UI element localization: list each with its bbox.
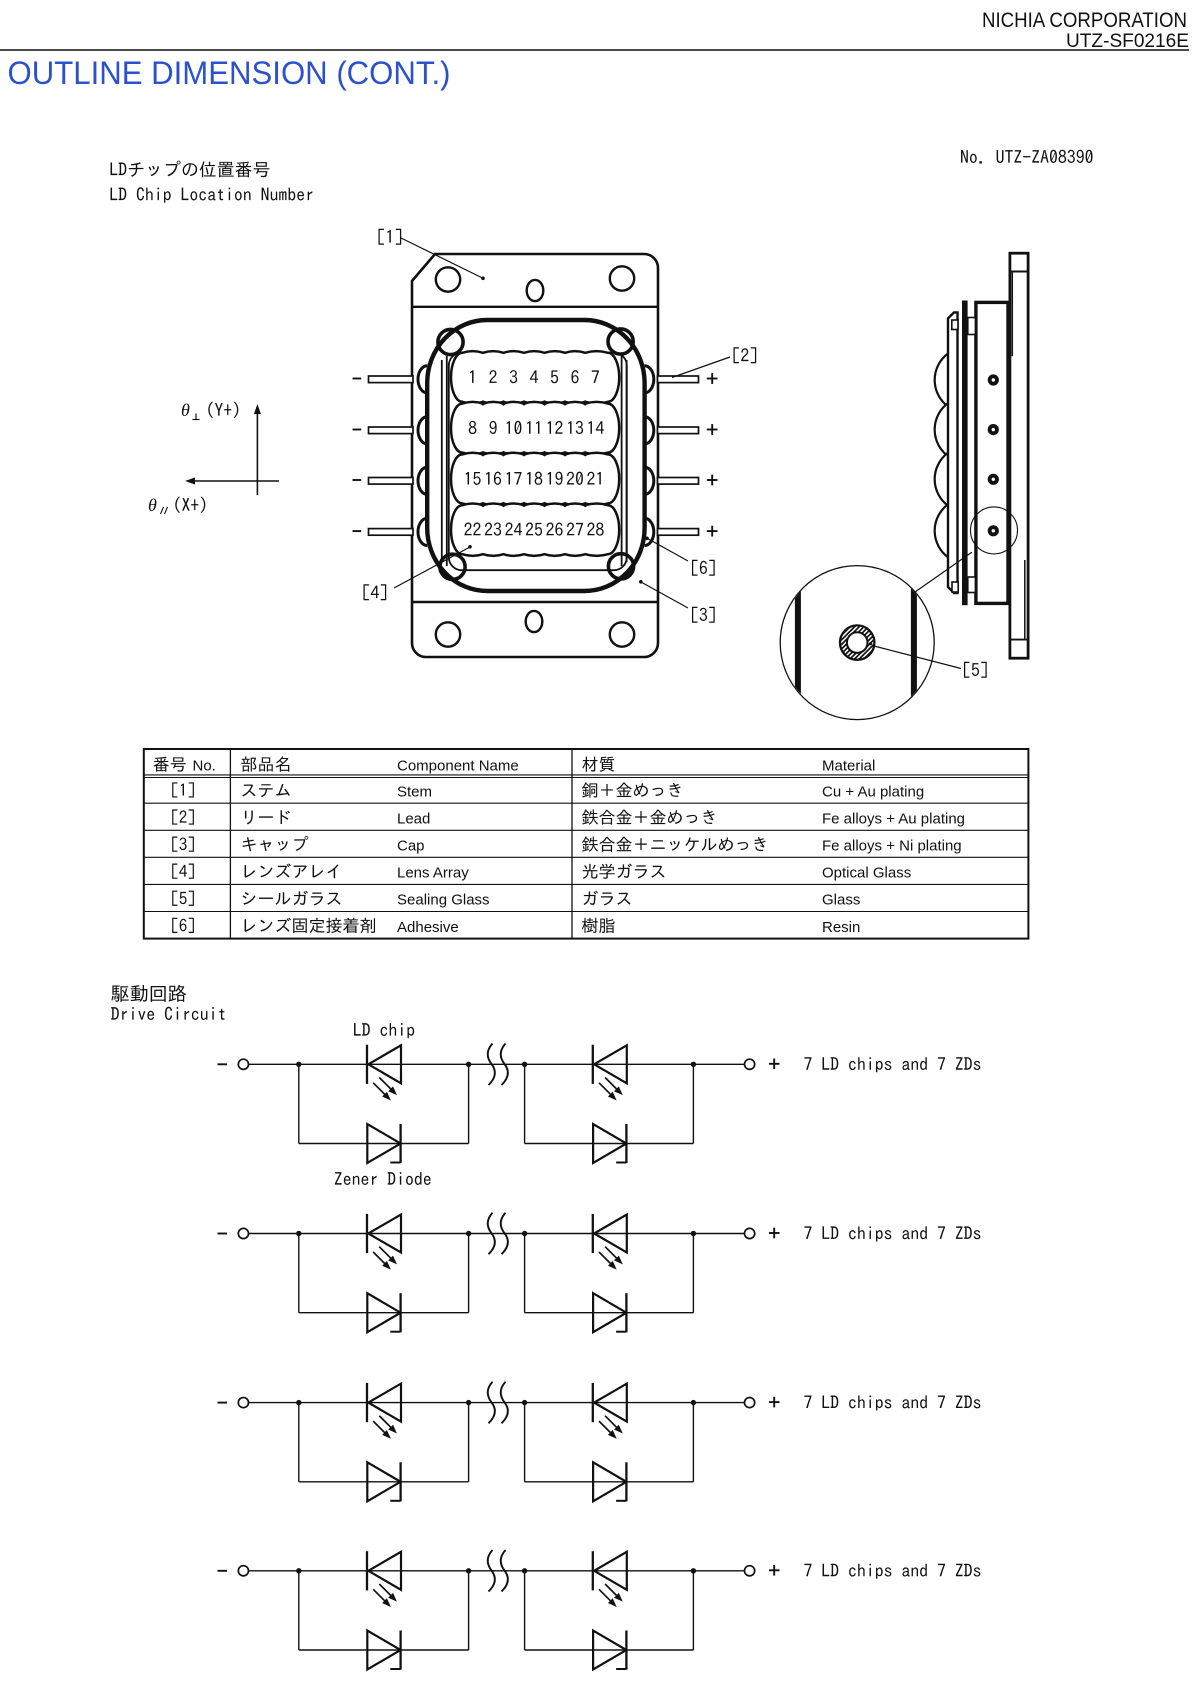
row 3 positive terminal: [745, 1398, 755, 1408]
row 4 zener branch rails right cell: [525, 1571, 694, 1650]
row 1 zener branch rails right cell: [525, 1064, 694, 1143]
row 2 negative terminal: [238, 1228, 248, 1238]
svg-text:Stem: Stem: [397, 783, 432, 800]
row 1 plus terminal mark: [769, 1059, 780, 1070]
axis label theta-perp (Y+): [181, 400, 238, 420]
lens row 3 (chips 15-21): [451, 453, 619, 505]
svg-text:UTZ-SF0216E: UTZ-SF0216E: [1066, 31, 1189, 52]
row 3 annotation 7 LD chips and 7 ZDs: [804, 1396, 980, 1411]
svg-text:Glass: Glass: [822, 892, 860, 909]
drive circuit heading (EN): [111, 1007, 224, 1020]
stem flange line top: [412, 306, 658, 308]
row 4 node C junction: [522, 1568, 527, 1573]
cap block (side view): [976, 302, 1008, 603]
row 2 node D junction: [691, 1231, 696, 1236]
stem outline (front view): [412, 254, 658, 657]
svg-text:Optical Glass: Optical Glass: [822, 865, 911, 882]
axis horizontal arrow (X+): [185, 478, 279, 485]
row 3 minus terminal mark: [218, 1402, 228, 1404]
svg-text:Sealing Glass: Sealing Glass: [397, 892, 490, 909]
row 1 wire break symbol: [488, 1044, 508, 1086]
lens array frame verticals left: [442, 356, 447, 566]
axis label theta-para (X+): [148, 495, 205, 515]
row 3 node C junction: [522, 1400, 527, 1405]
lens row 4 (chips 22-28): [451, 504, 619, 556]
svg-text:Adhesive: Adhesive: [397, 919, 459, 936]
row 4 LD chip D4a: [367, 1551, 401, 1607]
callout [1] label: [378, 229, 401, 245]
cap side bumps (8x): [418, 366, 654, 546]
row 3 plus terminal mark: [769, 1397, 780, 1408]
row 3 node D junction: [691, 1400, 696, 1405]
row 4 LD chip D4b: [593, 1551, 627, 1607]
row 2 node B junction: [466, 1231, 471, 1236]
row 3 negative terminal: [238, 1398, 248, 1408]
row 4 node B junction: [466, 1568, 471, 1573]
detail view clip: [0, 0, 1, 1]
caption LD chip location number (JP): [111, 161, 270, 178]
row 2 wire: [249, 1233, 745, 1235]
detail reference circle (side view): [971, 507, 1018, 554]
row 1 node B junction: [466, 1062, 471, 1067]
lens array frame verticals right: [622, 356, 627, 566]
chip location numbers row 1: [470, 370, 599, 383]
row 2 annotation 7 LD chips and 7 ZDs: [804, 1226, 980, 1241]
svg-text:Fe alloys + Ni plating: Fe alloys + Ni plating: [822, 838, 962, 855]
row 1 LD chip D1b: [593, 1045, 627, 1101]
row 4 plus terminal mark: [769, 1565, 780, 1576]
row 2 positive terminal: [745, 1228, 755, 1238]
row 4 zener branch rails left cell: [299, 1571, 469, 1650]
callout [4] leader: [394, 545, 472, 588]
minus polarity marks left: [353, 379, 362, 532]
row 3 zener branch rails left cell: [299, 1403, 469, 1482]
row 1 node D junction: [691, 1062, 696, 1067]
header document number text: [1066, 31, 1189, 52]
row 1 wire: [249, 1063, 745, 1065]
row 4 node D junction: [691, 1568, 696, 1573]
row 3 zener branch rails right cell: [525, 1403, 694, 1482]
svg-text:θ: θ: [148, 495, 157, 515]
row 2 zener diode Z2b: [593, 1293, 626, 1332]
table header cells: [154, 756, 876, 774]
callout [6] label: [692, 560, 715, 576]
row 2 LD chip D2a: [367, 1214, 401, 1270]
row 4 minus terminal mark: [218, 1570, 228, 1572]
cap corner lugs (4x): [438, 329, 634, 580]
detail view boundary circle: [780, 566, 934, 720]
row 2 zener branch rails right cell: [525, 1234, 694, 1313]
mounting hole bottom-right: [610, 622, 634, 646]
row 3 wire break symbol: [488, 1382, 508, 1424]
detail view reference leader: [913, 552, 972, 594]
row 1 annotation 7 LD chips and 7 ZDs: [804, 1057, 980, 1072]
callout [3] leader: [639, 580, 688, 608]
stem flange line bottom: [412, 601, 658, 603]
stem slot bottom-center: [526, 611, 543, 632]
row 1 node C junction: [522, 1062, 527, 1067]
table row [1]: [172, 782, 924, 800]
callout [5] leader: [869, 642, 961, 669]
callout [2] label: [733, 347, 756, 363]
page title: [8, 55, 451, 91]
lens row 1 (chips 1-7): [451, 351, 619, 403]
row 2 LD chip D2b: [593, 1214, 627, 1270]
row 4 wire: [249, 1570, 745, 1572]
svg-text:Material: Material: [822, 758, 875, 775]
row 3 wire: [249, 1402, 745, 1404]
row 1 zener branch rails left cell: [299, 1064, 469, 1143]
row 2 minus terminal mark: [218, 1233, 228, 1235]
row 2 zener branch rails left cell: [299, 1234, 469, 1313]
table row [4]: [172, 863, 911, 881]
table row [3]: [172, 836, 961, 855]
lens row 2 (chips 8-14): [451, 402, 619, 454]
chip location numbers row 2: [469, 421, 604, 434]
row 1 node A junction: [296, 1062, 301, 1067]
row 1 zener diode Z1a: [367, 1124, 400, 1163]
row 4 positive terminal: [745, 1566, 755, 1576]
lens junction diamonds: [479, 400, 589, 507]
row 3 node A junction: [296, 1400, 301, 1405]
chip location numbers row 4: [464, 522, 603, 535]
stem slot top-center: [527, 280, 544, 301]
row 3 zener diode Z3b: [593, 1462, 626, 1501]
stem plate (side view): [1010, 253, 1028, 658]
callout [2] leader: [672, 357, 730, 378]
callout [1] leader: [400, 238, 485, 281]
leads left (4x): [369, 376, 414, 535]
row 4 negative terminal: [238, 1566, 248, 1576]
lens array plate with lens bumps (side view): [935, 312, 958, 593]
cap opening rounded rect: [449, 353, 627, 571]
table row [2]: [172, 809, 965, 827]
callout [3] label: [692, 607, 715, 623]
header company name text: [982, 9, 1187, 32]
label LD chip: [354, 1023, 414, 1038]
mounting hole top-left: [436, 267, 460, 291]
adhesive tabs (side view): [952, 318, 976, 593]
svg-text:θ: θ: [181, 400, 190, 420]
svg-text:No.: No.: [193, 758, 216, 775]
row 1 LD chip D1a: [367, 1045, 401, 1101]
mounting hole top-right: [610, 266, 634, 290]
plus polarity marks right: [707, 373, 718, 536]
row 1 zener diode Z1b: [593, 1124, 626, 1163]
row 1 minus terminal mark: [218, 1063, 228, 1065]
row 2 node C junction: [522, 1231, 527, 1236]
sealing glass bar (side view): [962, 301, 968, 606]
chip location numbers row 3: [466, 472, 601, 485]
row 2 wire break symbol: [488, 1213, 508, 1255]
svg-text:OUTLINE DIMENSION (CONT.): OUTLINE DIMENSION (CONT.): [8, 55, 451, 91]
label Zener Diode: [335, 1172, 431, 1185]
svg-text:NICHIA CORPORATION: NICHIA CORPORATION: [982, 9, 1187, 32]
row 3 LD chip D3a: [367, 1383, 401, 1439]
detail view glass bars: [795, 560, 917, 725]
header rule: [0, 49, 1189, 51]
svg-text:Lead: Lead: [397, 811, 430, 828]
materials table grid: [144, 749, 1029, 939]
caption LD Chip Location Number (EN): [111, 187, 313, 202]
sealing glass hatched ring: [801, 619, 913, 667]
svg-text:Cap: Cap: [397, 838, 425, 855]
callout [6] leader: [645, 537, 688, 562]
row 4 wire break symbol: [488, 1550, 508, 1592]
row 4 annotation 7 LD chips and 7 ZDs: [804, 1564, 980, 1579]
cap outline (thick): [427, 320, 644, 591]
mounting hole bottom-left: [436, 622, 460, 646]
row 1 positive terminal: [745, 1059, 755, 1069]
row 2 node A junction: [296, 1231, 301, 1236]
svg-text:Lens Array: Lens Array: [397, 865, 469, 882]
table row [5]: [172, 891, 860, 909]
svg-text:Cu + Au plating: Cu + Au plating: [822, 783, 924, 800]
svg-text:Resin: Resin: [822, 919, 860, 936]
drive circuit heading (JP): [111, 985, 186, 1002]
row 2 zener diode Z2a: [367, 1293, 400, 1332]
row 3 LD chip D3b: [593, 1383, 627, 1439]
row 4 node A junction: [296, 1568, 301, 1573]
row 4 zener diode Z4a: [367, 1631, 400, 1670]
drawing number No. UTZ-ZA08390: [961, 150, 1092, 164]
row 2 plus terminal mark: [769, 1228, 780, 1239]
row 1 negative terminal: [238, 1059, 248, 1069]
row 4 zener diode Z4b: [593, 1631, 626, 1670]
table row [6]: [172, 918, 860, 936]
row 3 zener diode Z3a: [367, 1462, 400, 1501]
svg-text:Fe alloys + Au plating: Fe alloys + Au plating: [822, 811, 965, 828]
row 3 node B junction: [466, 1400, 471, 1405]
leads right (4x): [658, 376, 699, 535]
callout [4] label: [363, 584, 386, 600]
axis vertical arrow (Y+): [254, 404, 261, 495]
lead ends (side view, 4x): [988, 374, 999, 536]
callout [5] label: [964, 662, 987, 678]
svg-text:Component Name: Component Name: [397, 758, 519, 775]
